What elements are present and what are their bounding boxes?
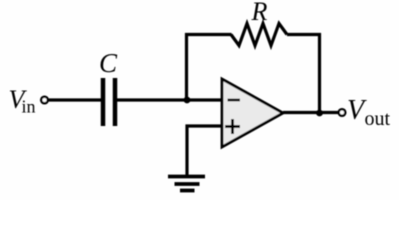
svg-text:R: R (251, 0, 268, 26)
svg-text:out: out (365, 108, 391, 130)
wire right vertical down to output (318, 33, 321, 113)
wire feedback vertical up (185, 33, 188, 100)
op-amp U1 triangle (222, 79, 283, 147)
wire top horizontal to resistor (185, 33, 232, 36)
node Vout terminal (339, 109, 346, 116)
svg-text:in: in (22, 97, 36, 117)
resistor R zigzag (231, 24, 287, 46)
op-amp plus input sign (225, 119, 240, 134)
wire resistor to top-right corner (287, 33, 321, 36)
wire plus input to ground (187, 126, 222, 175)
wire Vin to capacitor (48, 98, 101, 101)
svg-text:C: C (99, 48, 118, 78)
ground symbol (168, 177, 205, 191)
node Vin terminal (41, 97, 48, 104)
junction node at output (316, 110, 323, 117)
wire capacitor to op-amp inverting input (117, 98, 222, 101)
junction node at inverting input (184, 97, 191, 104)
capacitor C plates (103, 78, 115, 126)
wire op-amp output to Vout (283, 111, 339, 114)
op-amp minus input sign (228, 99, 241, 102)
